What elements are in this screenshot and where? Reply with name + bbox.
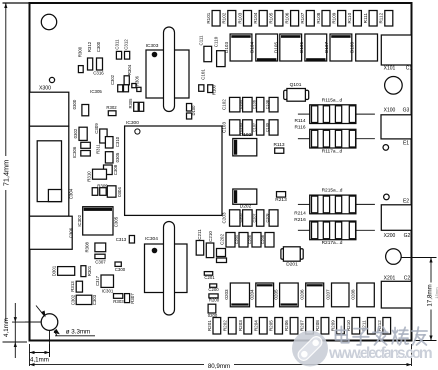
svg-text:C101: C101 [201, 69, 206, 80]
svg-text:R207: R207 [300, 320, 305, 331]
svg-text:R313: R313 [70, 281, 75, 292]
svg-text:IC306: IC306 [72, 146, 77, 158]
svg-text:C1: C1 [406, 65, 413, 71]
svg-text:C104: C104 [239, 100, 243, 109]
svg-text:C211: C211 [197, 229, 202, 240]
svg-text:R106: R106 [284, 12, 289, 23]
svg-text:R202: R202 [222, 320, 227, 331]
svg-text:C2: C2 [404, 275, 411, 281]
svg-text:R208: R208 [315, 320, 320, 331]
svg-text:0207: 0207 [325, 289, 330, 300]
svg-text:C316: C316 [93, 71, 104, 76]
svg-text:R117a...d: R117a...d [322, 148, 343, 154]
svg-text:IC301: IC301 [102, 288, 114, 293]
svg-text:C300: C300 [115, 267, 126, 272]
svg-text:R302: R302 [106, 105, 117, 110]
svg-text:R209: R209 [331, 320, 336, 331]
svg-text:R116: R116 [294, 124, 305, 130]
svg-text:R201: R201 [207, 320, 212, 331]
svg-text:R203: R203 [238, 320, 243, 331]
svg-text:C105: C105 [239, 123, 243, 132]
svg-text:C302: C302 [110, 74, 115, 85]
svg-text:C204: C204 [235, 235, 239, 244]
svg-text:R308: R308 [85, 241, 90, 252]
svg-text:R100: R100 [211, 84, 216, 95]
svg-text:R301: R301 [87, 265, 92, 276]
svg-text:R304: R304 [127, 64, 132, 75]
svg-text:R105: R105 [269, 12, 274, 23]
svg-text:R300: R300 [78, 46, 83, 57]
svg-text:D107: D107 [324, 42, 329, 53]
svg-text:71,4mm: 71,4mm [2, 160, 11, 186]
svg-text:IC304: IC304 [145, 236, 158, 242]
svg-text:X100: X100 [384, 108, 396, 114]
svg-text:IC303: IC303 [146, 43, 159, 49]
svg-text:R213: R213 [275, 197, 287, 203]
svg-text:G2: G2 [404, 233, 411, 239]
svg-text:0300: 0300 [72, 99, 77, 109]
svg-text:R215a...d: R215a...d [322, 188, 343, 194]
svg-text:C317: C317 [95, 275, 100, 286]
svg-text:C312: C312 [124, 39, 129, 50]
svg-text:C304: C304 [69, 188, 74, 199]
svg-text:R206: R206 [284, 320, 289, 331]
svg-text:C208: C208 [261, 235, 265, 244]
svg-text:R107: R107 [300, 12, 305, 23]
svg-text:D202: D202 [240, 203, 252, 209]
svg-text:C207: C207 [253, 213, 257, 222]
svg-text:C206: C206 [248, 235, 252, 244]
svg-text:C306: C306 [69, 227, 74, 238]
svg-text:R110: R110 [347, 12, 352, 23]
svg-text:R104: R104 [253, 12, 258, 23]
svg-text:C310: C310 [115, 136, 120, 147]
svg-text:ø 3.3mm: ø 3.3mm [66, 328, 90, 335]
svg-text:IC302: IC302 [77, 214, 82, 226]
svg-text:80,9mm: 80,9mm [208, 363, 230, 370]
svg-text:C200: C200 [208, 287, 219, 292]
svg-text:C201: C201 [204, 275, 215, 280]
svg-text:C202: C202 [220, 234, 225, 245]
svg-text:0304: 0304 [117, 187, 122, 197]
svg-text:C210: C210 [208, 231, 213, 242]
svg-text:0302: 0302 [73, 128, 78, 138]
svg-text:R305: R305 [128, 98, 133, 109]
svg-text:R112: R112 [379, 12, 384, 23]
svg-text:R111: R111 [363, 13, 368, 24]
svg-text:R214: R214 [294, 210, 306, 216]
svg-text:X300: X300 [39, 85, 51, 91]
svg-text:C209: C209 [265, 213, 269, 222]
svg-text:X200: X200 [384, 233, 396, 239]
svg-text:R113: R113 [273, 142, 284, 148]
svg-text:R108: R108 [316, 12, 321, 23]
svg-text:E1: E1 [403, 141, 409, 147]
svg-text:4,1mm: 4,1mm [30, 357, 49, 364]
svg-text:0206: 0206 [300, 289, 305, 300]
svg-text:R311: R311 [95, 143, 100, 153]
svg-text:E2: E2 [403, 198, 409, 204]
svg-text:R114: R114 [294, 118, 305, 124]
svg-text:C107: C107 [253, 123, 257, 132]
svg-text:4,1mm: 4,1mm [3, 318, 10, 337]
svg-text:R102: R102 [222, 12, 227, 23]
svg-text:R312: R312 [87, 41, 92, 52]
svg-text:D104: D104 [250, 42, 255, 53]
svg-text:R101: R101 [206, 12, 211, 23]
svg-text:C109: C109 [265, 123, 269, 132]
svg-text:D106: D106 [299, 42, 304, 53]
svg-text:C111: C111 [198, 35, 203, 46]
svg-text:C311: C311 [115, 39, 120, 50]
svg-text:R103: R103 [237, 12, 242, 23]
svg-text:D201: D201 [286, 261, 298, 267]
svg-text:R109: R109 [332, 12, 337, 23]
svg-text:IC305: IC305 [90, 89, 102, 94]
svg-text:R307: R307 [130, 293, 135, 304]
svg-text:D102: D102 [240, 132, 252, 138]
svg-text:C106: C106 [253, 100, 257, 109]
svg-text:D108: D108 [350, 42, 355, 53]
svg-text:17,8mm: 17,8mm [427, 284, 434, 306]
svg-text:0305: 0305 [115, 152, 120, 162]
svg-text:C110: C110 [214, 36, 219, 47]
svg-text:R200: R200 [209, 298, 220, 303]
svg-text:X101: X101 [384, 65, 396, 71]
svg-text:C313: C313 [116, 237, 127, 242]
svg-text:0205: 0205 [274, 289, 279, 300]
svg-text:D105: D105 [274, 42, 279, 53]
svg-text:G3: G3 [403, 108, 410, 114]
svg-text:15mm: 15mm [434, 287, 438, 299]
svg-text:C305: C305 [114, 216, 119, 227]
svg-text:0204: 0204 [250, 289, 255, 300]
svg-text:D301: D301 [52, 265, 57, 276]
svg-text:R310: R310 [87, 171, 92, 182]
svg-text:R204: R204 [253, 320, 258, 331]
svg-text:C205: C205 [239, 213, 243, 222]
svg-text:C302: C302 [70, 294, 75, 305]
svg-text:www.elecfans.com: www.elecfans.com [328, 345, 433, 362]
svg-text:C303: C303 [92, 294, 97, 305]
svg-text:0208: 0208 [351, 289, 356, 300]
svg-text:Q101: Q101 [290, 82, 302, 88]
svg-text:R303: R303 [113, 299, 124, 304]
svg-text:C102: C102 [222, 99, 227, 110]
svg-text:R205: R205 [269, 320, 274, 331]
svg-text:C300: C300 [96, 41, 101, 52]
svg-text:C108: C108 [265, 100, 269, 109]
svg-text:C308: C308 [113, 164, 118, 175]
svg-text:R217a...d: R217a...d [322, 240, 343, 246]
svg-text:R115a...d: R115a...d [322, 97, 343, 103]
svg-text:IC300: IC300 [126, 120, 139, 126]
svg-text:C309: C309 [94, 123, 99, 134]
svg-text:R216: R216 [294, 217, 306, 223]
svg-text:X201: X201 [384, 275, 396, 281]
svg-text:0203: 0203 [224, 289, 229, 300]
svg-text:C307: C307 [95, 259, 106, 264]
